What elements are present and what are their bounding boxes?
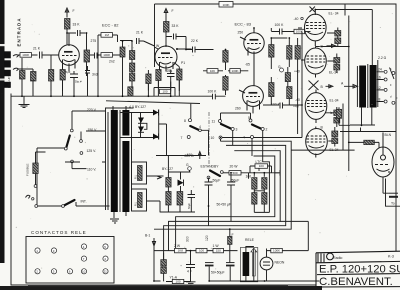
svg-text:100K: 100K: [232, 69, 239, 73]
transformer mid line: [357, 60, 377, 108]
resistor 470 upper: [255, 164, 268, 169]
svg-text:EL- 34: EL- 34: [329, 12, 339, 16]
svg-text:22 K: 22 K: [191, 39, 199, 43]
bias bus lines: [154, 139, 291, 229]
grid leak resistor V1: [49, 70, 54, 82]
svg-text:125 V.: 125 V.: [87, 149, 97, 153]
svg-text:Radio: Radio: [333, 256, 342, 260]
selector lever: [66, 136, 70, 148]
output transformer core bar2: [370, 65, 377, 108]
svg-text:2: 2: [266, 128, 268, 132]
svg-text:20 W: 20 W: [230, 165, 239, 169]
svg-text:10: 10: [82, 270, 86, 274]
grid resistor stack: [20, 71, 26, 80]
resistor 100 on bus: [160, 89, 171, 93]
filter cap 50uF a: [205, 178, 213, 186]
cap bottom right: [389, 192, 398, 194]
top rail to transformer: [315, 5, 372, 172]
resistor to stage2 grid 100K: [101, 53, 113, 58]
svg-text:100K: 100K: [103, 53, 110, 57]
svg-text:P1: P1: [181, 61, 185, 65]
diode D3: [138, 127, 144, 133]
svg-text:100 K: 100 K: [271, 103, 281, 107]
resistor 100K input series: [20, 53, 32, 58]
svg-text:260: 260: [235, 107, 241, 111]
110V tap: [71, 160, 74, 163]
svg-text:110 V.: 110 V.: [87, 168, 96, 172]
wire splitter to output grids: [222, 28, 305, 138]
svg-text:ENTRADA: ENTRADA: [16, 17, 21, 46]
svg-text:25µ: 25µ: [167, 69, 173, 73]
svg-text:21 K: 21 K: [33, 47, 41, 51]
svg-text:100K: 100K: [273, 249, 280, 253]
relay armature hatched: [251, 248, 257, 276]
cathode resistor V1: [60, 70, 65, 81]
plate resistor 10K stage1: [65, 19, 71, 30]
svg-text:33 K: 33 K: [172, 24, 180, 28]
svg-text:25µF: 25µF: [64, 70, 71, 74]
svg-text:ECC - 82: ECC - 82: [102, 23, 119, 28]
tube EL34 V8: [306, 127, 328, 158]
rotary switch bank: [211, 113, 268, 140]
svg-text:ECC - 83: ECC - 83: [235, 22, 252, 27]
cathode resistor V2: [156, 70, 161, 81]
resistor 275 node vertical: [84, 50, 90, 62]
electro cap bottom a: [205, 262, 214, 264]
svg-text:E.P. 120+120 SU: E.P. 120+120 SU: [319, 264, 400, 276]
transformer bottom wiring: [350, 107, 375, 125]
plate resistor V3: [269, 45, 274, 58]
svg-text:7: 7: [181, 136, 183, 140]
plate resistor 21K stage2: [164, 22, 170, 33]
bias divider resistors R row1: [252, 178, 257, 190]
svg-text:500: 500: [232, 171, 237, 175]
left scan edge strip: [0, 0, 5, 263]
svg-text:10: 10: [211, 136, 215, 140]
bias resistor bottom: [166, 192, 171, 206]
svg-text:100: 100: [162, 90, 167, 94]
svg-text:160: 160: [246, 175, 252, 179]
svg-text:1 W: 1 W: [213, 244, 220, 248]
svg-text:4: 4: [199, 125, 201, 129]
resistor RL right of splitter: [285, 73, 290, 82]
svg-text:G: G: [278, 65, 281, 69]
transformer top leads: [102, 106, 134, 162]
svg-text:F: F: [172, 9, 174, 13]
node G circle 2: [188, 167, 192, 171]
svg-text:11: 11: [212, 120, 216, 124]
rectifier bridge wires: [121, 110, 167, 156]
svg-text:-40: -40: [295, 98, 300, 102]
top wire to small tube: [340, 128, 396, 132]
svg-text:Dip.#: Dip.#: [75, 80, 82, 84]
cap into stage2: [120, 38, 144, 44]
cap to 275 node: [78, 30, 86, 36]
svg-text:INT.: INT.: [81, 200, 87, 204]
svg-text:50µF: 50µF: [232, 179, 240, 183]
bias resistor top: [166, 178, 171, 188]
svg-text:+40: +40: [294, 70, 300, 74]
splitter load resistor A: [287, 46, 292, 60]
svg-text:1M: 1M: [105, 33, 110, 37]
resistor below +40: [287, 87, 292, 99]
svg-text:10K: 10K: [210, 69, 215, 73]
svg-text:50µF: 50µF: [187, 203, 191, 209]
svg-text:4: 4: [243, 136, 245, 140]
svg-text:FUSIBLE: FUSIBLE: [26, 163, 30, 176]
power transformer core bar1: [111, 110, 118, 212]
svg-text:PICK-UP: PICK-UP: [7, 77, 11, 88]
heater winding box 1: [132, 162, 164, 184]
dash-dot divider: [208, 112, 210, 164]
svg-text:100: 100: [199, 249, 204, 253]
svg-text:100: 100: [259, 164, 264, 168]
svg-text:100 K: 100 K: [275, 23, 285, 27]
input jack blob 3: [4, 70, 11, 76]
tone caps stack: [120, 47, 125, 57]
cathode bypass cap 50uF: [70, 71, 78, 82]
svg-text:3: 3: [236, 128, 238, 132]
bias divider resistors R row2: [252, 193, 257, 205]
svg-text:21 K: 21 K: [136, 31, 144, 35]
svg-text:11: 11: [104, 270, 107, 274]
bypass cap 25u V2: [167, 70, 175, 82]
svg-text:300: 300: [185, 236, 189, 242]
resistor 100K neon: [271, 248, 283, 252]
node G circle: [280, 68, 284, 72]
grid resistor V3: [223, 51, 228, 63]
selector to fuse wire: [37, 148, 80, 206]
svg-text:8: 8: [379, 97, 381, 101]
splitter cathode resistor: [269, 83, 274, 97]
tube EL34 V5: [305, 10, 327, 47]
svg-text:2n2: 2n2: [109, 60, 115, 64]
tube EL34 V7: [305, 90, 327, 124]
power transformer core bar2: [122, 110, 129, 136]
arrow F stage1: [65, 8, 69, 18]
svg-text:100K: 100K: [222, 3, 229, 7]
grid resistor V4: [223, 77, 228, 91]
svg-text:100 K: 100 K: [208, 90, 218, 94]
svg-text:RELE: RELE: [245, 238, 255, 242]
stage 1 input wiring: [13, 55, 38, 72]
resistor mid 207-218: [207, 69, 218, 73]
resistor feeding small tube: [364, 140, 375, 144]
bias wires: [156, 156, 206, 213]
bias diode: [178, 180, 184, 186]
second grid resistor: [31, 72, 37, 82]
svg-text:12: 12: [377, 86, 381, 90]
svg-text:LTC: LTC: [256, 160, 263, 164]
svg-text:4 X BY-127: 4 X BY-127: [129, 105, 146, 109]
svg-text:1K8: 1K8: [178, 249, 184, 253]
screen resistors V5: [335, 31, 341, 37]
long bus under bias: [209, 185, 232, 226]
svg-text:275: 275: [91, 39, 97, 43]
svg-text:4 F: 4 F: [187, 270, 192, 274]
tone resistor stack2: [130, 51, 135, 60]
svg-text:2 W: 2 W: [174, 244, 181, 248]
svg-text:To: To: [391, 202, 395, 206]
cathode resistor small right: [336, 109, 341, 118]
cap 4uF: [186, 251, 195, 276]
resistor horizontal top right: [294, 29, 305, 33]
svg-text:ls: ls: [330, 111, 333, 115]
pot P1: [177, 69, 182, 80]
svg-text:400: 400: [187, 153, 193, 157]
relay coil black: [243, 252, 250, 276]
grid resistor V2b: [146, 74, 151, 84]
svg-text:-40: -40: [294, 17, 299, 21]
splitter load resistor B: [295, 46, 300, 60]
input jack blob 4: [4, 82, 11, 88]
electro cap bottom b: [226, 262, 235, 264]
svg-text:250: 250: [238, 31, 244, 35]
tube V1 triode: [59, 33, 80, 72]
ground under input: [19, 96, 30, 107]
svg-text:100: 100: [176, 280, 181, 284]
svg-text:K-3: K-3: [388, 255, 394, 259]
secondary terminals: [377, 67, 398, 104]
tube EL34 V6: [305, 47, 327, 78]
svg-text:50+50 µF: 50+50 µF: [217, 203, 232, 207]
feedback resistor on top line: [219, 2, 233, 8]
svg-text:50µF: 50µF: [213, 179, 221, 183]
aux switch hook: [26, 195, 31, 198]
power transformer primary lines: [106, 112, 109, 210]
svg-text:33 K: 33 K: [73, 23, 81, 27]
bias cap 50uF: [188, 190, 196, 203]
svg-text:B-1: B-1: [145, 234, 150, 238]
cap 3n3: [85, 66, 90, 78]
svg-text:NEON: NEON: [275, 261, 285, 265]
small resistor on bus: [128, 87, 133, 96]
bias resistor right: [177, 192, 183, 206]
HT tap selector: [181, 104, 209, 159]
svg-text:EL-34: EL-34: [330, 99, 339, 103]
svg-text:150: 150: [216, 249, 221, 253]
grid cross V7: [309, 81, 319, 91]
input jack blob 2: [4, 60, 11, 67]
resistor 1M stage2: [101, 33, 113, 38]
neon lamp: [260, 257, 273, 270]
tube V3: [240, 28, 264, 86]
relay outline: [240, 248, 257, 282]
ground bottom mid: [186, 276, 196, 286]
stacked pair resistors left-bottom: [161, 260, 167, 266]
CONTACTOS RELE box: [26, 230, 114, 283]
heater winding box 2: [132, 189, 161, 212]
transformer bottom ground: [110, 212, 126, 223]
svg-text:C.BENAVENT.: C.BENAVENT.: [319, 276, 393, 288]
cap out stage1: [90, 53, 101, 59]
ground bus: [11, 95, 226, 97]
svg-text:120: 120: [205, 235, 209, 241]
diode D4: [153, 134, 159, 140]
X mark above V5: [310, 7, 316, 13]
diode D1: [153, 110, 159, 116]
svg-text:CINTA: CINTA: [0, 93, 4, 101]
resistor mid bottom: [196, 248, 207, 252]
svg-text:ESTANDBY: ESTANDBY: [201, 165, 220, 169]
svg-text:R.L: R.L: [134, 201, 138, 206]
svg-text:CONTACTOS RELE: CONTACTOS RELE: [31, 230, 87, 235]
title block: [316, 251, 400, 288]
svg-text:Bi-N: Bi-N: [385, 133, 392, 137]
svg-text:BY-127: BY-127: [162, 167, 173, 171]
svg-text:R.L: R.L: [134, 174, 138, 179]
svg-text:100K: 100K: [22, 53, 29, 57]
coupling cap C in: [38, 52, 59, 59]
svg-text:-65: -65: [245, 63, 250, 67]
input jack blob 1: [4, 51, 11, 58]
svg-text:F: F: [73, 9, 75, 13]
svg-text:3n3: 3n3: [92, 73, 98, 77]
svg-text:2.2 Ω: 2.2 Ω: [378, 56, 387, 60]
diode D2: [138, 118, 144, 124]
svg-text:8: 8: [184, 119, 186, 123]
filter cap 50uF b: [227, 173, 235, 185]
tube V2 triode: [144, 41, 178, 72]
output transformer core bar1: [359, 66, 366, 108]
bottom scan band: [0, 286, 322, 290]
svg-text:24: 24: [378, 68, 382, 72]
V2 plate cap: [166, 34, 193, 50]
screen resistors V6: [334, 58, 340, 64]
resistor 10K bottom V3: [230, 69, 241, 73]
tube V4 splitter: [239, 86, 263, 114]
screen resistors V7: [334, 110, 340, 116]
screen resistors V8: [332, 131, 338, 137]
resistor Y1-A: [172, 279, 184, 283]
wire A arrow to transformer: [344, 85, 358, 89]
svg-text:16: 16: [377, 75, 381, 79]
svg-text:50+50µF: 50+50µF: [211, 271, 225, 275]
second bus line: [106, 101, 200, 104]
svg-text:G: G: [186, 163, 189, 167]
